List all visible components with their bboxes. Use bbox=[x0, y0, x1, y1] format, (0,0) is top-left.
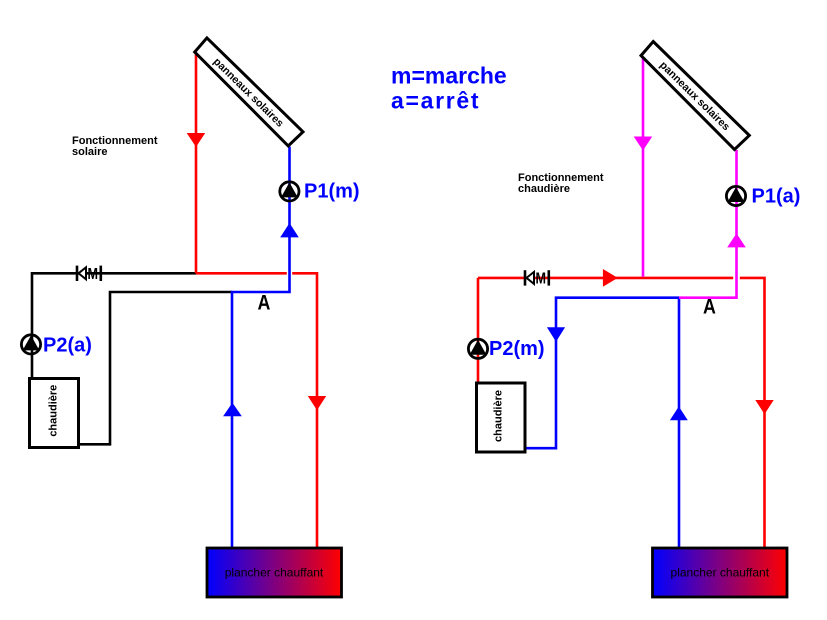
svg-text:chaudière: chaudière bbox=[48, 385, 60, 437]
svg-text:solaire: solaire bbox=[72, 146, 107, 158]
svg-text:chaudière: chaudière bbox=[493, 390, 505, 442]
svg-text:m=marche: m=marche bbox=[391, 63, 507, 89]
svg-text:A: A bbox=[703, 295, 716, 319]
svg-text:P1(m): P1(m) bbox=[304, 181, 360, 203]
svg-text:M: M bbox=[536, 271, 547, 288]
svg-text:plancher chauffant: plancher chauffant bbox=[671, 566, 770, 580]
svg-text:a=arrêt: a=arrêt bbox=[391, 88, 480, 114]
svg-text:P2(m): P2(m) bbox=[489, 338, 545, 360]
svg-text:A: A bbox=[258, 291, 271, 315]
svg-text:P1(a): P1(a) bbox=[752, 186, 801, 208]
svg-text:chaudière: chaudière bbox=[518, 183, 570, 195]
svg-text:P2(a): P2(a) bbox=[43, 335, 92, 357]
svg-text:M: M bbox=[88, 266, 99, 283]
svg-text:plancher chauffant: plancher chauffant bbox=[225, 566, 324, 580]
